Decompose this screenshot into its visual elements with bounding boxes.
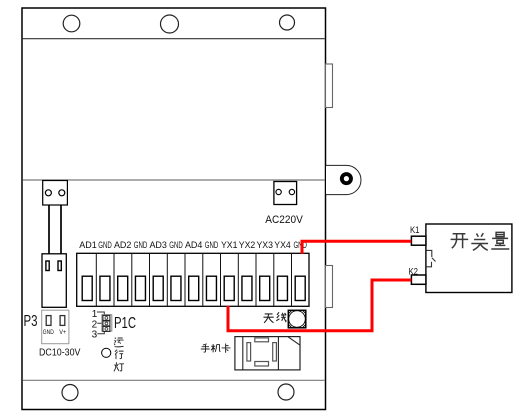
svg-text:GND: GND (169, 240, 183, 250)
svg-text:YX1: YX1 (221, 240, 238, 250)
svg-text:YX3: YX3 (256, 240, 273, 250)
svg-text:AD2: AD2 (114, 240, 132, 250)
svg-text:V+: V+ (59, 330, 66, 336)
svg-text:AD3: AD3 (149, 240, 167, 250)
svg-text:P3: P3 (24, 313, 38, 330)
svg-text:DC10-30V: DC10-30V (39, 348, 81, 359)
svg-text:GND: GND (205, 240, 219, 250)
svg-text:GND: GND (43, 330, 55, 336)
svg-text:K2: K2 (409, 266, 419, 276)
svg-text:GND: GND (134, 240, 148, 250)
svg-text:GND: GND (98, 240, 112, 250)
svg-text:YX4: YX4 (274, 240, 291, 250)
svg-text:AD1: AD1 (79, 240, 97, 250)
svg-text:3: 3 (92, 329, 98, 340)
svg-text:P1C: P1C (114, 315, 136, 332)
svg-text:K1: K1 (410, 225, 420, 235)
svg-text:AD4: AD4 (185, 240, 203, 250)
svg-text:YX2: YX2 (239, 240, 256, 250)
svg-text:AC220V: AC220V (265, 214, 303, 226)
